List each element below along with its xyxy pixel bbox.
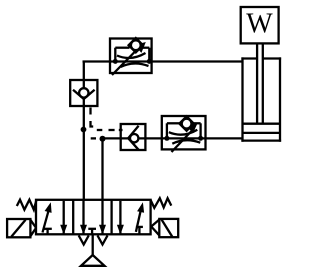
svg-text:W: W: [246, 9, 273, 40]
